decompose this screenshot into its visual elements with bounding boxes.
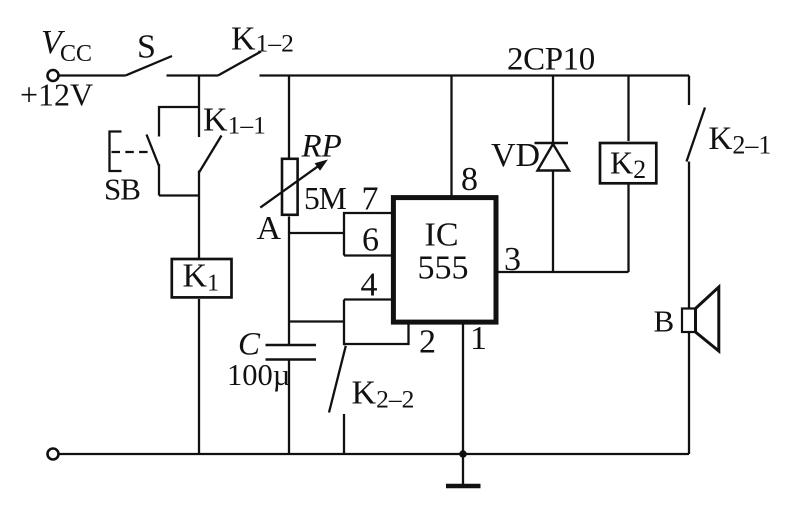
wire: pin 1 to ground rail xyxy=(462,322,464,455)
wire: K2 branch from top rail xyxy=(627,76,629,142)
pushbutton SB actuator xyxy=(110,132,122,172)
wire: top rail right of K1-2 xyxy=(260,74,690,76)
svg-text:6: 6 xyxy=(362,222,379,259)
svg-text:8: 8 xyxy=(461,161,478,198)
wire: RP branch from top rail xyxy=(288,76,290,159)
wire: SB lower terminal xyxy=(158,164,160,196)
svg-text:2: 2 xyxy=(419,324,436,361)
svg-text:CC: CC xyxy=(60,41,92,67)
svg-text:IC: IC xyxy=(425,217,459,254)
svg-text:S: S xyxy=(137,29,156,66)
wire: pin 3 output xyxy=(497,271,629,273)
wire: pin 6 xyxy=(344,254,393,256)
terminal bottom-left xyxy=(48,449,59,460)
wire: K1-1 lower to coil xyxy=(198,171,200,259)
wire: K2 coil to pin3 line xyxy=(627,183,629,273)
ground xyxy=(462,454,464,485)
contact K2-1 blade xyxy=(687,108,706,162)
svg-text:+12V: +12V xyxy=(20,77,93,113)
wire: bottom bracket of parallel pair xyxy=(159,194,199,196)
wire: pin 4 vertical down xyxy=(343,300,345,346)
svg-text:RP: RP xyxy=(301,129,342,165)
terminal Vcc (top-left input terminal) xyxy=(48,70,59,81)
bottom rail xyxy=(59,453,690,455)
contact K2-2 blade xyxy=(329,346,346,413)
svg-text:1: 1 xyxy=(470,320,487,357)
svg-text:VD: VD xyxy=(491,137,540,174)
contact K1-1 blade xyxy=(199,136,222,173)
speaker B cone xyxy=(696,287,719,351)
svg-text:B: B xyxy=(654,304,675,339)
wire: K2-1 to speaker xyxy=(688,162,690,309)
potentiometer RP arrow xyxy=(260,166,318,207)
wire: pin 2 xyxy=(344,320,409,344)
pushbutton SB contact blade xyxy=(147,135,160,167)
switch K1-2 blade xyxy=(218,52,261,76)
speaker B box xyxy=(682,309,696,333)
svg-text:5M: 5M xyxy=(304,181,347,216)
wire: K2-1 branch from top rail xyxy=(688,76,690,106)
relay coil K1 xyxy=(172,259,232,297)
svg-text:A: A xyxy=(257,210,282,247)
wire: speaker to bottom rail xyxy=(688,332,690,454)
wire: pin 8 from top rail xyxy=(450,76,452,200)
svg-text:SB: SB xyxy=(104,172,140,207)
wire: top bracket of SB/K1-1 parallel pair xyxy=(159,107,199,137)
wire: pin 4 xyxy=(344,298,395,300)
wire: K1 coil to bottom rail xyxy=(198,299,200,454)
wire: terminal to switch S xyxy=(59,74,126,76)
op-amp U1: IC 555 timer box xyxy=(393,198,496,323)
junction dot at pin1/bottom rail xyxy=(459,450,467,458)
node A wire to pins 7/6 step xyxy=(289,232,344,234)
svg-text:3: 3 xyxy=(504,241,521,278)
wire: diode branch from top rail xyxy=(552,76,554,273)
wire: pin 7 xyxy=(344,213,393,256)
svg-text:2CP10: 2CP10 xyxy=(507,42,595,78)
diode VD (cathode bar) xyxy=(535,142,569,145)
relay coil K2 xyxy=(600,143,656,183)
svg-text:555: 555 xyxy=(418,250,469,287)
svg-text:100µ: 100µ xyxy=(227,358,290,392)
wire: tie from capacitor branch to pin4/K2-2 vertical xyxy=(289,320,344,322)
wire: capacitor to bottom rail xyxy=(288,360,290,455)
switch S blade xyxy=(126,56,173,76)
svg-text:7: 7 xyxy=(362,181,379,218)
svg-text:4: 4 xyxy=(361,267,378,304)
diode VD (triangle) xyxy=(538,144,570,171)
wire: K2-2 lower terminal xyxy=(343,414,345,454)
wire: switch S to K1-2 xyxy=(167,74,219,76)
wire: junction vertical down from top rail (K1 branch) xyxy=(198,76,200,138)
potentiometer RP body xyxy=(282,159,298,215)
wire: RP bottom through node A to capacitor xyxy=(288,217,290,346)
capacitor C plates xyxy=(266,344,317,347)
